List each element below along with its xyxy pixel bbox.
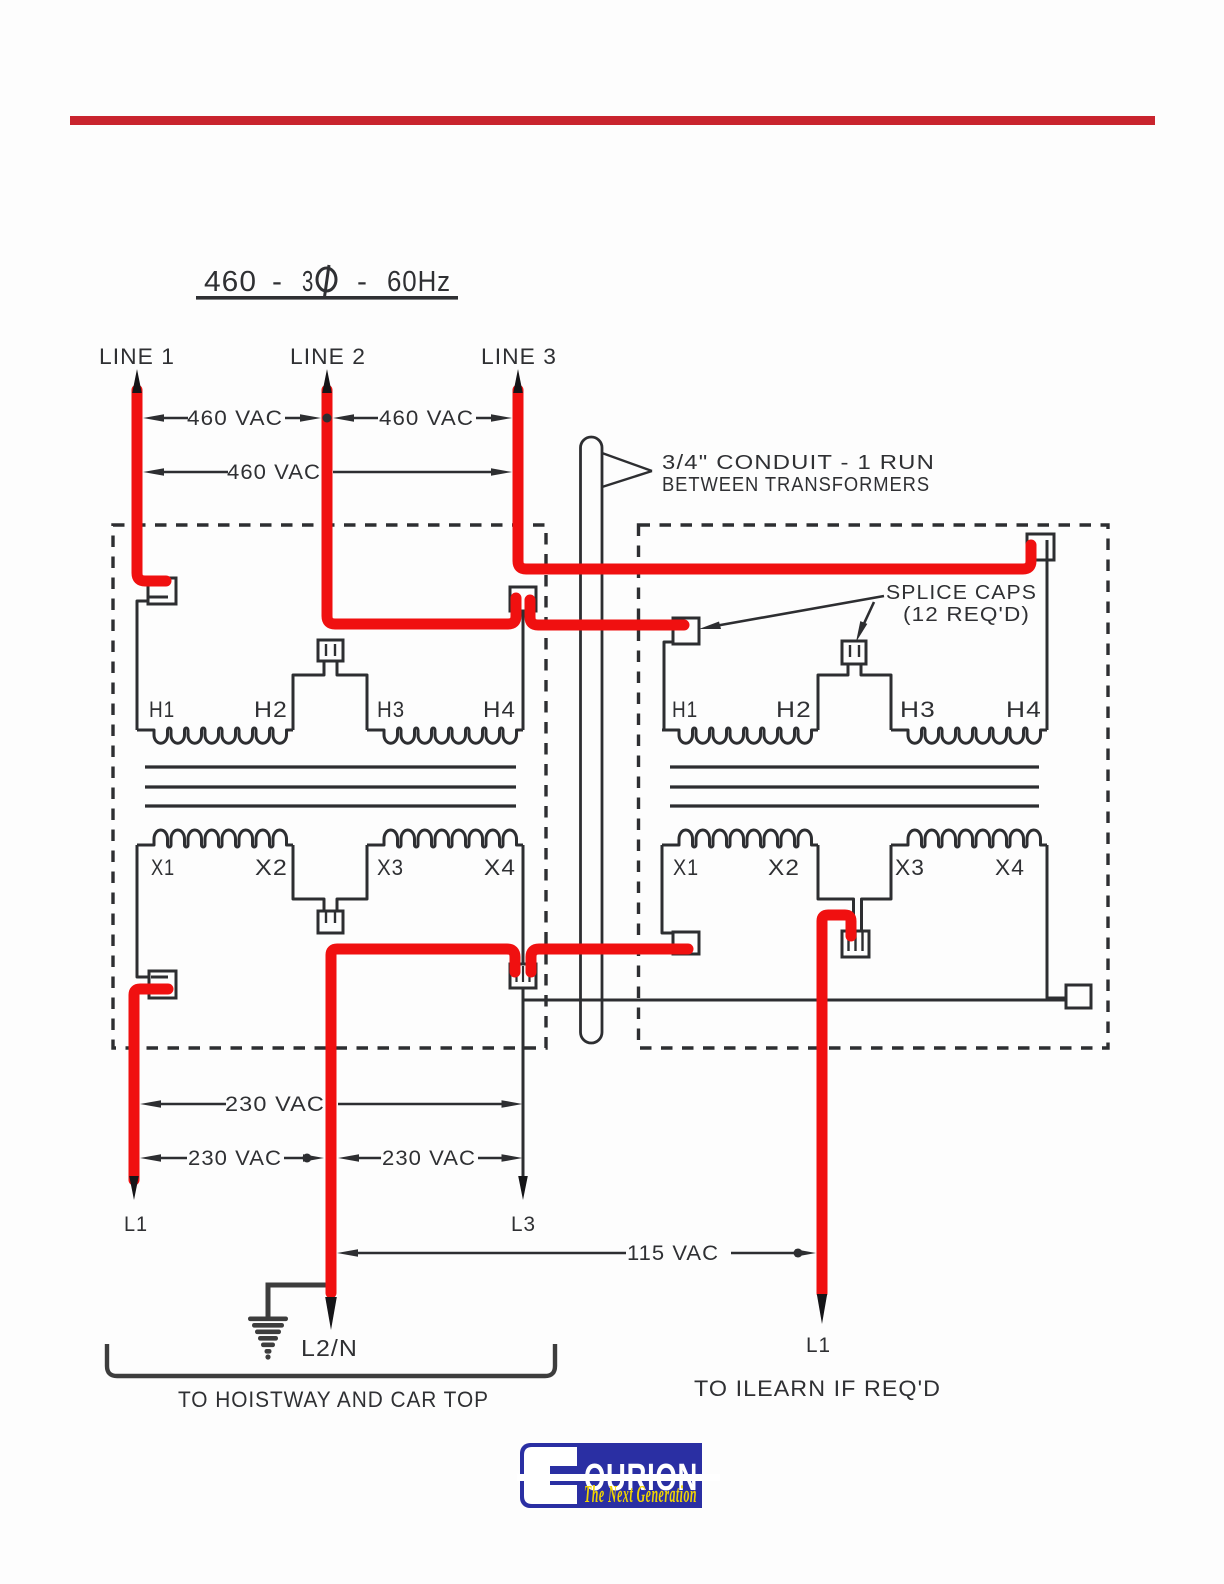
svg-text:460 VAC: 460 VAC bbox=[379, 407, 474, 430]
svg-text:H3: H3 bbox=[900, 697, 936, 722]
svg-text:L1: L1 bbox=[806, 1334, 831, 1357]
svg-text:X2: X2 bbox=[768, 855, 800, 880]
svg-text:The Next Generation: The Next Generation bbox=[584, 1482, 697, 1508]
svg-text:X1: X1 bbox=[673, 855, 699, 880]
svg-text:SPLICE CAPS: SPLICE CAPS bbox=[886, 582, 1037, 604]
svg-text:3/4" CONDUIT - 1 RUN: 3/4" CONDUIT - 1 RUN bbox=[662, 452, 935, 474]
svg-text:H1: H1 bbox=[149, 697, 175, 722]
svg-text:230 VAC: 230 VAC bbox=[188, 1147, 282, 1170]
svg-text:3: 3 bbox=[302, 266, 314, 298]
svg-text:X4: X4 bbox=[995, 855, 1025, 880]
svg-text:H1: H1 bbox=[672, 697, 698, 722]
svg-text:H4: H4 bbox=[483, 697, 516, 722]
svg-text:L2/N: L2/N bbox=[301, 1335, 358, 1361]
svg-text:X3: X3 bbox=[895, 855, 925, 880]
svg-text:230 VAC: 230 VAC bbox=[225, 1093, 325, 1116]
svg-text:460: 460 bbox=[204, 266, 257, 298]
svg-text:LINE 2: LINE 2 bbox=[290, 344, 366, 369]
svg-text:(12 REQ'D): (12 REQ'D) bbox=[903, 604, 1030, 626]
svg-text:-: - bbox=[357, 266, 368, 298]
svg-text:LINE 1: LINE 1 bbox=[99, 344, 175, 369]
svg-text:BETWEEN TRANSFORMERS: BETWEEN TRANSFORMERS bbox=[662, 474, 930, 496]
svg-text:H3: H3 bbox=[377, 697, 405, 722]
svg-text:L1: L1 bbox=[124, 1213, 148, 1236]
svg-text:TO ILEARN IF REQ'D: TO ILEARN IF REQ'D bbox=[694, 1376, 941, 1401]
svg-text:-: - bbox=[272, 266, 283, 298]
svg-text:115 VAC: 115 VAC bbox=[627, 1242, 719, 1265]
svg-text:460 VAC: 460 VAC bbox=[187, 407, 283, 430]
svg-text:230 VAC: 230 VAC bbox=[382, 1147, 476, 1170]
svg-text:60Hz: 60Hz bbox=[387, 266, 451, 298]
svg-text:X4: X4 bbox=[484, 855, 516, 880]
svg-text:X2: X2 bbox=[255, 855, 288, 880]
svg-text:TO HOISTWAY AND CAR TOP: TO HOISTWAY AND CAR TOP bbox=[178, 1387, 489, 1412]
svg-text:L3: L3 bbox=[511, 1213, 536, 1236]
svg-text:460 VAC: 460 VAC bbox=[227, 461, 321, 484]
svg-text:LINE 3: LINE 3 bbox=[481, 344, 557, 369]
svg-text:X1: X1 bbox=[151, 855, 175, 880]
svg-text:X3: X3 bbox=[377, 855, 404, 880]
svg-text:H4: H4 bbox=[1006, 697, 1042, 722]
svg-text:H2: H2 bbox=[254, 697, 288, 722]
svg-text:H2: H2 bbox=[776, 697, 812, 722]
